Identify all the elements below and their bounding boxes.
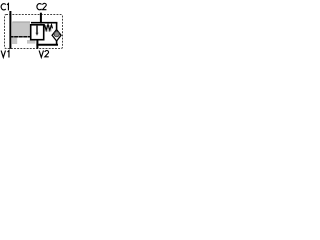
wire: bottom node line — [36, 44, 58, 46]
label V1 — [1, 51, 9, 58]
arrow inside valve (flow down) — [36, 26, 38, 33]
label C1 — [1, 4, 8, 11]
gray shading block left of valve — [12, 22, 30, 44]
check valve ball — [54, 32, 59, 37]
gray shading under valve square — [27, 40, 35, 44]
label V2 — [39, 51, 49, 58]
wire: top node line — [31, 22, 57, 24]
check valve diamond — [52, 30, 61, 41]
background — [0, 0, 67, 68]
envelope (dashed enclosure) — [5, 15, 63, 49]
wire: check valve bottom lead — [56, 41, 58, 45]
wire: pilot line — [10, 36, 30, 38]
wire: check valve top lead — [56, 23, 58, 30]
spring — [44, 24, 52, 30]
gray shading behind spring — [43, 25, 51, 32]
port line C2 — [40, 13, 42, 24]
port line C1-V1 — [9, 11, 11, 49]
wire: valve bottom to V2 port — [36, 40, 38, 49]
gray shading top edge — [12, 21, 30, 22]
label C2 — [37, 3, 46, 9]
valve square V1 body — [31, 25, 44, 40]
